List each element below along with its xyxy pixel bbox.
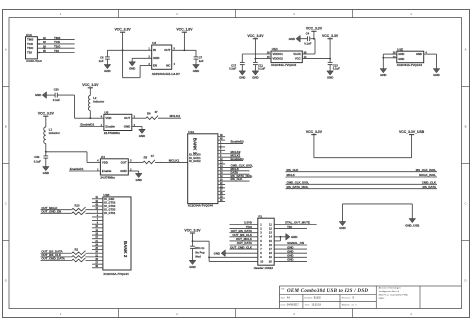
svg-text:U1B: U1B [103, 193, 110, 197]
svg-text:IO_GTS1: IO_GTS1 [104, 211, 116, 215]
wire P1 pin 9 [209, 256, 258, 258]
wire VCC pin [302, 58, 330, 60]
svg-text:ADP150AUJZ-1.8-R7: ADP150AUJZ-1.8-R7 [152, 72, 181, 76]
svg-text:B: B [5, 125, 7, 129]
wire net OUT_CMD_CLK (P1) [230, 245, 258, 249]
wire net 3.3VD (P1) [230, 221, 258, 225]
wire U1B pin stub [92, 203, 103, 206]
svg-text:VCC_3.3V: VCC_3.3V [38, 112, 55, 116]
svg-text:VCC_3.3V: VCC_3.3V [82, 83, 99, 87]
svg-text:VCC_3.3V: VCC_3.3V [306, 130, 323, 134]
svg-text:VCC_3.3V: VCC_3.3V [115, 28, 132, 32]
svg-text:Number:: Number: [305, 296, 314, 299]
wire U1A pin stub [218, 195, 225, 198]
wire U1B pin stub [92, 218, 103, 221]
ground (C4) [289, 35, 301, 42]
wire C20 to U5 VDD [57, 95, 90, 118]
wire U1B pin stub [92, 265, 103, 268]
svg-text:A: A [5, 48, 7, 52]
ground (C11) [252, 71, 259, 80]
wire P1 pin 20 GND [274, 258, 307, 262]
svg-text:Time:: Time: [305, 305, 311, 307]
svg-text:EnableD2: EnableD2 [231, 140, 245, 144]
svg-text:0.1uF: 0.1uF [34, 159, 42, 163]
svg-text:GND: GND [214, 251, 220, 255]
svg-text:OUT: OUT [121, 160, 127, 164]
wire net I2S_CLK (U1A pin) [218, 177, 250, 181]
wire U1B pin stub [92, 222, 103, 225]
resistor R2 / wire net OUT_I2S_DATA [41, 247, 103, 254]
wire net TCK [37, 40, 74, 45]
ground (C5) [189, 260, 196, 269]
capacitor C20 [47, 87, 61, 102]
wire net MCLK1 to U1A [155, 158, 188, 162]
wire VDDIO2 [255, 58, 271, 60]
ground (P1 pins 14-15) [286, 234, 298, 241]
ground (C13) [327, 71, 334, 80]
svg-text:22.5792Mhz: 22.5792Mhz [104, 131, 121, 135]
ground (C20) [35, 92, 47, 99]
svg-text:VCC_3.3V: VCC_3.3V [322, 34, 339, 38]
wire net I2S_DATA_ISOL / I2S_DATA [286, 185, 438, 189]
svg-text:C4: C4 [306, 31, 310, 35]
svg-text:VDD: VDD [105, 116, 111, 120]
power VCC_3.3V_USB [399, 130, 425, 135]
wire net CMD_CLK_ISOL (U1A pin) [218, 164, 253, 168]
svg-text:R2: R2 [75, 247, 79, 251]
svg-text:C20: C20 [54, 87, 60, 91]
svg-text:VCC_3.3V: VCC_3.3V [306, 27, 323, 31]
svg-text:U3: U3 [152, 41, 156, 45]
wire U3 EN tie to input [123, 50, 152, 77]
wire U1A pin stub [218, 192, 225, 195]
svg-text:VCC: VCC [295, 57, 301, 61]
connector P1 Header 10X2A [254, 214, 274, 270]
svg-text:GND: GND [433, 73, 439, 77]
svg-text:B1302: B1302 [314, 296, 322, 299]
svg-text:OUT_GND_EN: OUT_GND_EN [41, 210, 61, 214]
svg-text:I2S_DATA_ISOL: I2S_DATA_ISOL [287, 185, 309, 189]
svg-text:OUT_CMD_DATA: OUT_CMD_DATA [41, 257, 65, 261]
power VCC_3.3V (P1) [184, 228, 201, 242]
svg-text:Header 10X2A: Header 10X2A [254, 266, 274, 270]
svg-text:GND: GND [35, 93, 41, 97]
svg-text:GND: GND [339, 226, 345, 230]
power VCC_3.3V (L2) [82, 83, 99, 95]
ground (C7) [193, 65, 200, 74]
capacitor C6 [99, 50, 110, 64]
svg-text:C: C [5, 202, 7, 206]
capacitor C4 [300, 31, 312, 45]
resistor R13 / wire net OUT_MCLK [41, 204, 103, 211]
svg-text:OUT: OUT [124, 116, 130, 120]
svg-text:VDDIO2: VDDIO2 [273, 57, 284, 61]
wire U4 GND [128, 171, 138, 173]
wire U1B pin stub [92, 229, 103, 232]
wire U1B pin stub [92, 243, 103, 246]
ground (U1E left) [380, 69, 387, 78]
wire net OUT_MCLK (P1) [230, 237, 258, 241]
wire U1A pin stub [218, 199, 225, 202]
wire U1B pin stub [92, 225, 103, 228]
wire U1A pin stub [218, 185, 225, 188]
resistor R14 / wire net OUT_GND_EN [41, 210, 103, 215]
svg-text:U1A: U1A [188, 130, 195, 134]
svg-text:I2S_CLK_ISOL: I2S_CLK_ISOL [416, 168, 436, 172]
svg-text:U4: U4 [101, 155, 105, 159]
svg-text:MCLK_ISOL: MCLK_ISOL [419, 173, 436, 177]
wire net OUT_I2S_DATA (P1) [230, 229, 258, 233]
svg-text:GND: GND [153, 56, 159, 60]
svg-text:VDD: VDD [102, 160, 108, 164]
svg-text:IO_GTS3: IO_GTS3 [104, 208, 116, 212]
svg-text:GND_USB: GND_USB [405, 224, 419, 228]
wire U1B pin stub [92, 236, 103, 239]
svg-text:0.1uF: 0.1uF [229, 67, 237, 71]
wire regulator output rail [172, 49, 196, 51]
wire net CMD_CLK_ISOL / CMD_CLK [286, 181, 438, 185]
svg-text:Inductor: Inductor [49, 131, 61, 135]
wire U5 GND [132, 127, 142, 130]
wire U1A pin stub [218, 189, 225, 192]
svg-text:GND: GND [289, 37, 295, 41]
svg-text:U1C: U1C [26, 33, 33, 37]
wire P1 pins 14-15 [274, 236, 286, 241]
wire net MCLK2 [158, 114, 181, 118]
node MCLK1 at U1A [161, 160, 162, 161]
svg-text:GND: GND [252, 76, 258, 80]
svg-text:56127 Loc. Ospedaletto PISA: 56127 Loc. Ospedaletto PISA [379, 293, 408, 296]
wire U1A pin stub [218, 134, 225, 137]
svg-text:GND: GND [193, 69, 199, 73]
svg-text:D: D [464, 279, 466, 283]
svg-text:MCLK: MCLK [287, 173, 296, 177]
capacitor C5 [190, 241, 205, 260]
svg-text:XC2C64A-7VQG44: XC2C64A-7VQG44 [271, 63, 297, 67]
svg-text:No Pop: No Pop [195, 251, 205, 255]
svg-text:GND: GND [189, 265, 195, 269]
svg-text:IO_GTS2: IO_GTS2 [104, 200, 116, 204]
svg-text:GND: GND [239, 76, 245, 80]
resistor R4 / wire net OUT_CMD_DATA [41, 257, 103, 262]
svg-text:24.576Mhz: 24.576Mhz [100, 175, 115, 179]
svg-text:Date:: Date: [281, 304, 287, 307]
wire L2 to U5 [89, 111, 104, 120]
wire net I2S_CLK / I2S_CLK_ISOL [286, 168, 438, 172]
svg-text:XC2C64A-7VQG44: XC2C64A-7VQG44 [26, 60, 42, 63]
wire U5 OUT [132, 117, 146, 119]
wire U1B pin stub [92, 200, 103, 203]
svg-text:TDI: TDI [54, 49, 59, 53]
wire P1 pin 18 GND [274, 249, 307, 253]
wire U1E GND pins [382, 54, 396, 69]
svg-text:0.1uF: 0.1uF [258, 67, 266, 71]
svg-text:47: 47 [155, 110, 159, 114]
wire regulator input rail [107, 49, 151, 51]
svg-text:GND: GND [380, 73, 386, 77]
svg-text:Sheet 2: Sheet 2 [342, 304, 350, 307]
svg-text:C3b: C3b [34, 155, 40, 159]
svg-text:VCC_3.3V_USB: VCC_3.3V_USB [399, 130, 425, 134]
resistor R5 [143, 154, 155, 164]
svg-text:GND: GND [104, 69, 110, 73]
wire U4 OUT [128, 161, 143, 163]
ic U1B CPLD BANK 2 [103, 193, 131, 276]
svg-text:Via Agnesina Bassi 3: Via Agnesina Bassi 3 [379, 290, 400, 293]
svg-text:IO_GSR: IO_GSR [104, 197, 114, 201]
wire U1A pin stub [218, 161, 225, 164]
wire U1A pin stub [218, 182, 225, 185]
regulator U3 ADP150 [148, 41, 180, 76]
inductor L1 [44, 127, 61, 144]
ic U1D power pins [267, 47, 307, 67]
svg-text:VCC_3.3V: VCC_3.3V [184, 228, 201, 232]
wire net MCLK (U1A pin) [218, 167, 250, 171]
wire GND tie rail [343, 204, 413, 222]
wire net TDO (P1) [230, 225, 258, 229]
wire net TDO [37, 45, 74, 50]
wire U1B pin stub [92, 214, 103, 217]
capacitor C13 [328, 59, 341, 71]
wire U1B pin stub [92, 247, 103, 250]
svg-text:R6: R6 [147, 111, 151, 115]
power VCC_1.8V [176, 28, 193, 51]
svg-text:Inductor: Inductor [93, 99, 105, 103]
svg-text:D: D [5, 279, 7, 283]
wire U1B pin stub [92, 240, 103, 243]
connector U1C JTAG port [26, 33, 43, 63]
power VCC_3.3V (L1) [38, 112, 55, 127]
svg-text:CMD_CLK: CMD_CLK [422, 181, 437, 185]
resistor R6 [146, 110, 158, 120]
wire net EnableD2 (U1A pin) [218, 140, 244, 144]
svg-text:U1E: U1E [397, 47, 403, 51]
svg-text:0.1uF: 0.1uF [304, 42, 312, 46]
wire net TMS [37, 36, 74, 41]
wire U1A pin stub [218, 138, 225, 141]
svg-text:EnableD1: EnableD1 [70, 167, 84, 171]
svg-text:GND: GND [287, 258, 293, 262]
svg-text:47: 47 [151, 154, 155, 158]
ic U1E ground pins [393, 47, 428, 67]
svg-text:C: C [464, 202, 466, 206]
power VCC_3.3V (tie) [306, 130, 323, 158]
svg-text:15:32:18: 15:32:18 [312, 304, 322, 307]
wire P1 pin 10 [209, 260, 258, 262]
wire net EnableD1 (U4) [69, 167, 100, 171]
svg-text:Enable: Enable [102, 169, 112, 173]
wire VDDIO1 [242, 54, 271, 62]
wire U1B pin stub [92, 196, 103, 199]
wire U3 GND pin [132, 58, 152, 62]
wire net TDI (P1) [274, 225, 307, 229]
svg-text:EN: EN [153, 63, 157, 67]
svg-text:GND: GND [124, 125, 130, 129]
wire net I2S_DATA_ISOL (U1A pin) [218, 174, 253, 178]
svg-text:GND: GND [135, 178, 141, 182]
wire VAUX [302, 39, 315, 54]
wire net OUT_I2S_CLK (P1) [230, 233, 258, 237]
oscillator U5 22.5792MHz [101, 111, 136, 135]
wire net MCLK / MCLK_ISOL [286, 173, 438, 177]
svg-text:0.1uF: 0.1uF [333, 67, 341, 71]
svg-text:B: B [465, 125, 467, 129]
svg-text:IN: IN [153, 48, 156, 52]
power VCC_3.3V (U1D left) [247, 34, 264, 59]
svg-text:XC2C64A-7VQG44: XC2C64A-7VQG44 [188, 204, 214, 208]
svg-text:GND: GND [129, 66, 135, 70]
svg-text:EnableD2: EnableD2 [80, 123, 94, 127]
svg-text:OUT_CMD_CLK: OUT_CMD_CLK [230, 245, 253, 249]
svg-text:XC2C64A-7VQG44: XC2C64A-7VQG44 [103, 272, 129, 276]
svg-text:GND: GND [120, 169, 126, 173]
ground (C17) [239, 71, 246, 80]
ground (C6) [104, 65, 111, 74]
svg-text:100n 1n: 100n 1n [195, 246, 205, 250]
svg-text:R13: R13 [75, 204, 81, 208]
svg-text:BANK 1: BANK 1 [193, 138, 198, 155]
svg-text:GND: GND [398, 52, 404, 56]
wire net TDI [37, 49, 74, 54]
ground GND_USB [405, 219, 419, 228]
svg-text:VCC_3.3V: VCC_3.3V [247, 34, 264, 38]
svg-text:Revision:: Revision: [342, 297, 351, 299]
oscillator U4 24.576MHz [97, 155, 132, 179]
wire net XTAL_OUT_MUTE [274, 221, 316, 225]
ic U1A CPLD BANK 1 [188, 130, 218, 208]
wire P1 pin 17 GND [274, 245, 307, 249]
svg-text:Amanero Technologies: Amanero Technologies [378, 286, 402, 289]
resistor R3 / wire net OUT_I2S_CLK [41, 253, 103, 258]
svg-text:OEM Combo384 USB to I2S / DSD: OEM Combo384 USB to I2S / DSD [287, 289, 368, 294]
svg-text:1uF: 1uF [199, 59, 204, 63]
wire U1E GND right [424, 54, 437, 69]
wire L1 down [45, 144, 47, 153]
ground (U1E right) [433, 69, 440, 78]
svg-text:0.1uF: 0.1uF [53, 98, 61, 102]
svg-text:1uF: 1uF [99, 59, 104, 63]
svg-text:VCC_1.8V: VCC_1.8V [176, 28, 193, 32]
svg-text:I2S_CLK: I2S_CLK [287, 168, 300, 172]
wire net MCLK2 (U1A pin) [218, 150, 241, 154]
capacitor C11 [253, 59, 266, 71]
svg-text:ITALY: ITALY [379, 297, 385, 300]
svg-text:OUT: OUT [164, 48, 170, 52]
wire U1A pin stub [218, 144, 225, 147]
svg-text:CMD_CLK_ISOL: CMD_CLK_ISOL [287, 181, 310, 185]
power VCC_3.3V (regulator input) [115, 28, 132, 52]
wire net EnableD2 (U5) [80, 123, 104, 127]
wire to U4 VDD [46, 152, 101, 163]
svg-text:04/09/2017: 04/09/2017 [287, 304, 300, 307]
ground (C3b) [43, 167, 50, 176]
capacitor C17 [229, 62, 245, 71]
svg-text:MCLK1: MCLK1 [169, 158, 180, 162]
inductor L2 [88, 96, 105, 111]
svg-text:Mod: Mod [195, 254, 201, 258]
svg-text:I2S_CLK: I2S_CLK [231, 177, 244, 181]
svg-text:GND: GND [327, 76, 333, 80]
svg-text:Enable: Enable [105, 125, 115, 129]
wire U1B pin stub [92, 233, 103, 236]
svg-text:EnableD1: EnableD1 [231, 157, 245, 161]
wire U1A pin stub [218, 148, 225, 151]
svg-text:GND: GND [416, 52, 422, 56]
ground (tie left) [339, 222, 346, 231]
svg-text:BANK 2: BANK 2 [123, 241, 128, 258]
ground (U5) [139, 129, 146, 138]
svg-text:TDI: TDI [27, 51, 32, 55]
wire net DATA (U1A pin) [218, 170, 250, 174]
wire P1 pin 19 GND [274, 254, 307, 258]
wire net SIGNAL_ON [274, 241, 307, 245]
ground (U3) [129, 62, 136, 71]
wire VCC tie rail [314, 135, 412, 158]
svg-text:TDI: TDI [287, 225, 292, 229]
svg-text:GND: GND [139, 134, 145, 138]
svg-text:VDDIO1: VDDIO1 [273, 52, 284, 56]
svg-text:U5: U5 [104, 111, 108, 115]
svg-text:GND: GND [43, 171, 49, 175]
svg-text:MCLK2: MCLK2 [170, 114, 181, 118]
svg-text:GND: GND [398, 57, 404, 61]
wire VCC to P1 pins 9-10 [193, 241, 211, 261]
capacitor C3b [34, 152, 48, 167]
svg-text:GND: GND [291, 235, 297, 239]
ground (U4) [135, 173, 142, 182]
wire U1B pin stub [92, 262, 103, 265]
svg-text:A: A [465, 48, 467, 52]
svg-text:I2S_DATA: I2S_DATA [422, 185, 436, 189]
svg-text:IO_GTS0: IO_GTS0 [104, 204, 116, 208]
svg-text:IO_GCK2: IO_GCK2 [189, 159, 201, 163]
power VCC_3.3V (C4) [306, 27, 323, 40]
capacitor C7 [194, 50, 204, 64]
svg-text:XC2C64A-7VQG44: XC2C64A-7VQG44 [397, 63, 423, 67]
svg-text:Size:: Size: [281, 297, 286, 299]
power VCC_3.3V (U1D right) [322, 34, 339, 59]
wire P1 pin 8 to GND [225, 252, 257, 254]
svg-text:U1D: U1D [272, 47, 279, 51]
wire net OUT_DATA (P1) [230, 241, 258, 245]
wire net EnableD1 (U1A pin) [218, 157, 244, 161]
svg-text:R5: R5 [144, 155, 148, 159]
svg-text:VAUX: VAUX [293, 52, 301, 56]
svg-text:P1: P1 [258, 214, 262, 218]
wire net MCLK1 (U1A pin) [218, 153, 241, 157]
ground (P1 pin 8) [214, 250, 226, 257]
